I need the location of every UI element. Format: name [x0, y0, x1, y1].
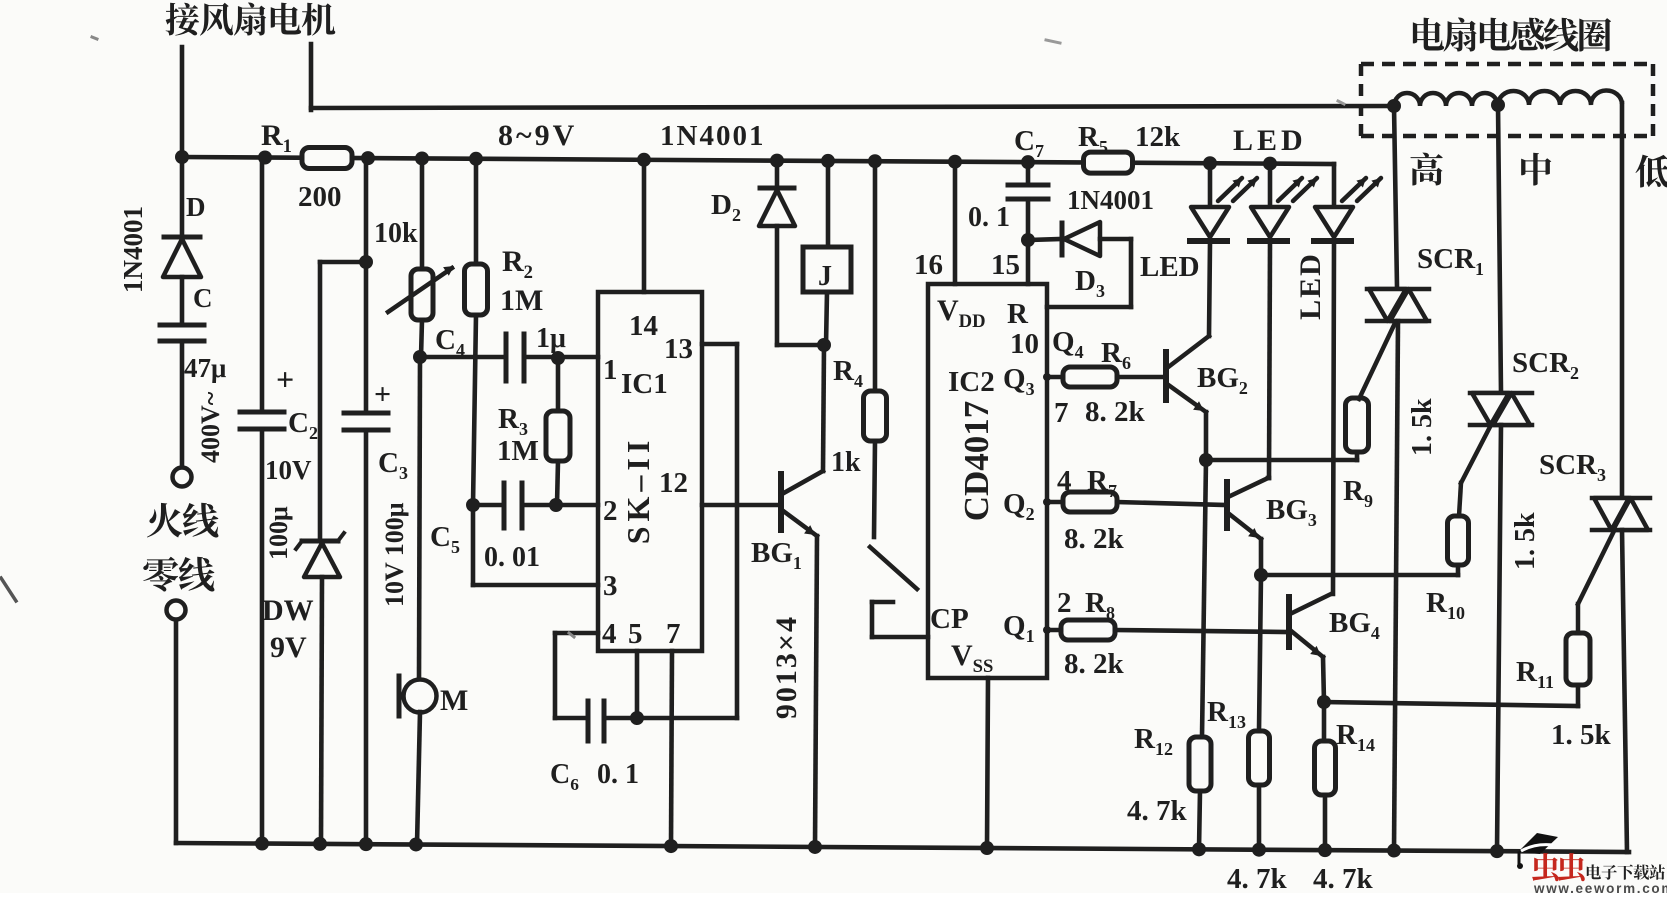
svg-text:7: 7	[666, 618, 681, 650]
svg-text:100μ: 100μ	[264, 506, 293, 560]
svg-text:M: M	[440, 684, 468, 717]
svg-text:www.eeworm.com: www.eeworm.com	[1533, 881, 1667, 893]
svg-text:SK–II: SK–II	[620, 436, 656, 545]
svg-text:1. 5k: 1. 5k	[1407, 398, 1438, 456]
svg-text:5: 5	[628, 618, 643, 650]
svg-text:1. 5k: 1. 5k	[1510, 512, 1541, 570]
svg-text:10: 10	[1010, 328, 1039, 360]
svg-text:10k: 10k	[374, 218, 418, 249]
svg-text:IC1: IC1	[621, 368, 668, 400]
svg-text:8. 2k: 8. 2k	[1085, 396, 1146, 428]
svg-text:0. 1: 0. 1	[968, 202, 1010, 233]
svg-text:400V~: 400V~	[196, 391, 225, 463]
svg-text:1M: 1M	[497, 435, 539, 467]
svg-text:0. 1: 0. 1	[597, 759, 639, 790]
svg-text:IC2: IC2	[948, 366, 995, 398]
svg-text:10V: 10V	[265, 455, 312, 485]
svg-text:LED: LED	[1233, 124, 1307, 157]
svg-text:D: D	[186, 192, 206, 222]
svg-text:2: 2	[603, 495, 618, 527]
svg-text:4. 7k: 4. 7k	[1127, 795, 1188, 827]
svg-text:LED: LED	[1294, 252, 1327, 320]
svg-text:12: 12	[659, 467, 688, 499]
svg-text:R: R	[1007, 298, 1029, 330]
svg-text:0. 01: 0. 01	[484, 542, 540, 573]
svg-text:4. 7k: 4. 7k	[1227, 863, 1288, 893]
svg-text:16: 16	[914, 249, 943, 281]
svg-text:1M: 1M	[500, 284, 543, 317]
svg-text:1μ: 1μ	[536, 323, 566, 354]
svg-text:14: 14	[629, 310, 658, 342]
svg-text:9V: 9V	[270, 631, 307, 664]
svg-text:12k: 12k	[1135, 121, 1181, 153]
svg-text:C: C	[193, 283, 213, 313]
svg-text:13: 13	[664, 333, 693, 365]
svg-text:8~9V: 8~9V	[498, 119, 577, 152]
svg-text:+: +	[374, 378, 391, 411]
svg-text:9013×4: 9013×4	[770, 615, 803, 719]
svg-text:SCR2: SCR2	[1512, 347, 1579, 383]
svg-text:SCR1: SCR1	[1417, 243, 1484, 279]
svg-text:15: 15	[991, 249, 1020, 281]
svg-text:10V 100μ: 10V 100μ	[380, 502, 409, 607]
svg-text:+: +	[276, 361, 294, 397]
svg-text:7: 7	[1054, 397, 1069, 429]
svg-text:1N4001: 1N4001	[660, 120, 765, 152]
svg-text:CP: CP	[930, 603, 969, 635]
svg-text:J: J	[818, 261, 832, 292]
svg-text:1N4001: 1N4001	[118, 206, 148, 293]
svg-text:1N4001: 1N4001	[1067, 185, 1154, 215]
svg-text:1. 5k: 1. 5k	[1551, 719, 1612, 751]
svg-text:4. 7k: 4. 7k	[1313, 863, 1374, 893]
svg-text:8. 2k: 8. 2k	[1064, 648, 1125, 680]
svg-text:8. 2k: 8. 2k	[1064, 523, 1125, 555]
svg-text:1: 1	[603, 354, 618, 386]
svg-text:SCR3: SCR3	[1539, 449, 1606, 485]
svg-text:4: 4	[1057, 465, 1072, 497]
svg-text:3: 3	[603, 570, 618, 602]
svg-text:1k: 1k	[831, 447, 861, 478]
svg-text:DW: DW	[262, 594, 314, 627]
svg-text:CD4017: CD4017	[957, 401, 996, 522]
svg-text:4: 4	[602, 618, 617, 650]
svg-text:200: 200	[298, 181, 342, 213]
svg-text:47μ: 47μ	[184, 353, 226, 383]
svg-text:2: 2	[1057, 587, 1072, 619]
svg-text:LED: LED	[1140, 251, 1200, 283]
